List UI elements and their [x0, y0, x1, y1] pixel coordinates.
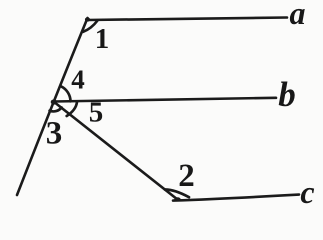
svg-text:2: 2: [178, 158, 195, 194]
line b: [54, 98, 277, 102]
angle 5 arc: [67, 102, 77, 116]
line c: [173, 195, 299, 201]
transversal through vertices on a and b: [17, 18, 88, 195]
vertex blob on line b: [51, 99, 57, 104]
angle 3 arc: [50, 108, 62, 112]
svg-text:5: 5: [89, 97, 104, 129]
angle 2 arc: [165, 190, 189, 198]
svg-text:a: a: [290, 0, 306, 31]
vertex blob on line c: [174, 197, 180, 201]
svg-text:b: b: [278, 75, 296, 114]
line a: [87, 18, 287, 21]
svg-text:3: 3: [46, 116, 63, 152]
svg-text:4: 4: [71, 65, 85, 95]
svg-text:c: c: [300, 174, 314, 210]
angle 1 arc: [83, 21, 97, 32]
svg-text:1: 1: [95, 23, 110, 55]
vertex blob on line a: [85, 17, 90, 21]
angle 4 arc: [61, 86, 71, 101]
oblique segment from vertex on b to vertex on c: [54, 102, 178, 200]
